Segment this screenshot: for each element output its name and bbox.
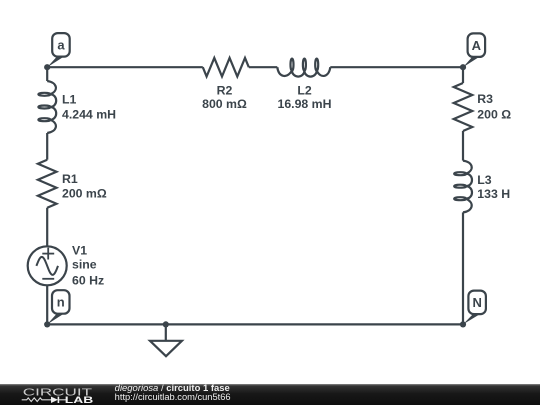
svg-text:R3: R3 — [477, 92, 493, 106]
voltage source V1 — [28, 246, 67, 285]
label R3 200 ohm — [477, 92, 511, 122]
resistor R2 — [203, 58, 249, 77]
CircuitLab logo — [22, 388, 94, 405]
label R1 200 mohm — [62, 172, 107, 201]
label R2 800 mohm — [202, 83, 247, 110]
wire top rail a-A — [47, 66, 463, 68]
svg-text:16.98 mH: 16.98 mH — [277, 97, 331, 111]
resistor R1 — [38, 160, 57, 208]
svg-text:LAB: LAB — [65, 394, 94, 405]
inductor L3 — [454, 161, 472, 213]
wire right rail A-N — [462, 67, 464, 324]
wire bottom rail n-N — [47, 323, 463, 325]
svg-text:L3: L3 — [477, 173, 492, 187]
svg-text:60 Hz: 60 Hz — [72, 274, 104, 288]
label L3 133 H — [477, 173, 510, 201]
junction dot node N — [460, 321, 466, 327]
svg-text:200 Ω: 200 Ω — [477, 108, 511, 122]
node n — [47, 290, 69, 324]
svg-text:N: N — [472, 295, 481, 310]
svg-text:R2: R2 — [217, 83, 233, 97]
svg-text:n: n — [57, 295, 65, 310]
junction dot node a — [44, 64, 50, 70]
svg-text:4.244 mH: 4.244 mH — [62, 107, 116, 121]
junction dot ground — [163, 321, 169, 327]
inductor L2 — [277, 59, 330, 77]
ground — [150, 324, 182, 356]
svg-text:L1: L1 — [62, 93, 77, 107]
svg-text:200 mΩ: 200 mΩ — [62, 187, 107, 201]
junction dot node n — [44, 321, 50, 327]
svg-text:sine: sine — [72, 257, 97, 271]
inductor L1 — [38, 81, 56, 133]
node A — [463, 33, 485, 67]
svg-text:http://circuitlab.com/cun5t66: http://circuitlab.com/cun5t66 — [115, 392, 231, 402]
svg-text:a: a — [57, 38, 65, 53]
label L1 4.244 mH — [62, 93, 116, 122]
svg-text:A: A — [472, 38, 482, 53]
footer title text — [115, 383, 231, 402]
label L2 16.98 mH — [277, 83, 331, 110]
label V1 sine 60 Hz — [72, 244, 104, 288]
wire left rail a-n — [46, 67, 48, 324]
footer bar — [0, 384, 540, 405]
svg-text:V1: V1 — [72, 244, 87, 258]
svg-text:800 mΩ: 800 mΩ — [202, 97, 247, 111]
junction dot node A — [460, 64, 466, 70]
svg-text:L2: L2 — [297, 83, 312, 97]
node N — [463, 291, 486, 325]
resistor R3 — [454, 83, 473, 131]
svg-text:R1: R1 — [62, 172, 78, 186]
node a — [47, 33, 69, 67]
svg-text:133 H: 133 H — [477, 187, 510, 201]
